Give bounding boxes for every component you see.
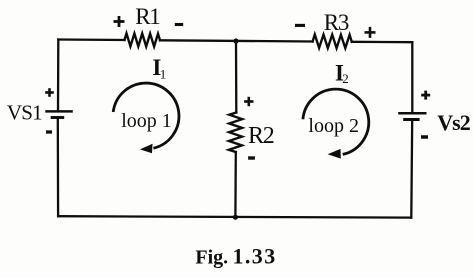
wire bottom bbox=[58, 216, 411, 217]
wire left upper bbox=[57, 40, 60, 112]
wire right upper bbox=[411, 42, 413, 113]
loop 2 current arc bbox=[303, 89, 369, 154]
svg-text:R1: R1 bbox=[135, 4, 160, 29]
svg-text:1.33: 1.33 bbox=[233, 243, 277, 268]
resistor R3 bbox=[313, 35, 352, 49]
minus sign VS1 bbox=[46, 130, 52, 133]
node B (bottom middle junction) bbox=[233, 215, 238, 220]
svg-text:VS1: VS1 bbox=[7, 101, 42, 125]
plus sign R1 bbox=[114, 16, 125, 27]
svg-text:Fig.: Fig. bbox=[195, 246, 228, 268]
svg-text:loop 2: loop 2 bbox=[308, 115, 359, 137]
battery VS1 bbox=[45, 111, 73, 117]
svg-text:R3: R3 bbox=[324, 10, 349, 35]
node A (top middle junction) bbox=[233, 38, 238, 43]
plus sign Vs2 bbox=[421, 91, 430, 100]
wire top-middle segment bbox=[160, 40, 313, 41]
minus sign R2 bbox=[248, 156, 255, 159]
svg-text:loop 1: loop 1 bbox=[121, 110, 172, 132]
svg-text:Vs2: Vs2 bbox=[437, 110, 470, 135]
wire right lower bbox=[410, 120, 413, 218]
loop 1 arrowhead bbox=[140, 144, 153, 153]
minus sign R3 bbox=[295, 24, 305, 27]
svg-text:1: 1 bbox=[160, 67, 167, 82]
loop 2 arrowhead bbox=[328, 149, 341, 159]
resistor R1 bbox=[125, 33, 161, 46]
wire middle upper bbox=[235, 41, 238, 113]
wire top-left segment bbox=[58, 38, 124, 41]
wire top-right segment bbox=[352, 41, 413, 44]
battery Vs2 bbox=[398, 113, 426, 119]
wire middle lower bbox=[234, 152, 237, 217]
plus sign R3 bbox=[365, 27, 376, 38]
plus sign VS1 bbox=[45, 88, 54, 97]
resistor R2 bbox=[229, 113, 242, 153]
minus sign Vs2 bbox=[421, 135, 428, 139]
svg-text:2: 2 bbox=[342, 71, 349, 86]
minus sign R1 bbox=[175, 23, 183, 26]
svg-text:R2: R2 bbox=[248, 123, 274, 149]
plus sign R2 bbox=[244, 97, 253, 106]
wire left lower bbox=[57, 118, 60, 217]
loop 1 current arc bbox=[113, 83, 179, 148]
